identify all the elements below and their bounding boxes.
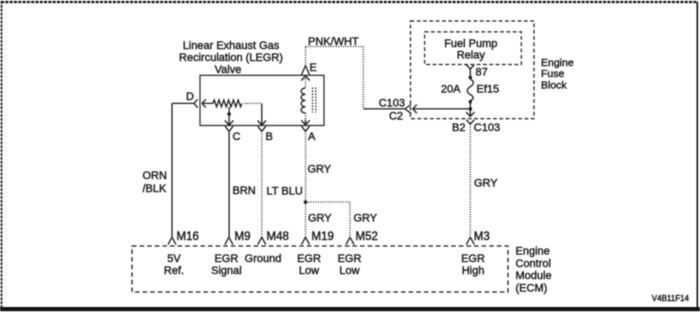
svg-text:(ECM): (ECM)	[516, 282, 548, 294]
wire fuse to junction	[469, 102, 471, 109]
svg-text:Linear Exhaust Gas: Linear Exhaust Gas	[183, 40, 280, 52]
coil up arrow	[301, 76, 309, 81]
frame left dotted border	[1, 1, 3, 307]
connector C103/C2 female half	[405, 105, 411, 114]
resistor right dotted run	[244, 102, 262, 104]
junction dot at C103 tap	[469, 107, 473, 111]
wire PNK/WHT E to C103	[306, 47, 364, 109]
svg-text:B: B	[266, 131, 273, 143]
svg-text:B2: B2	[452, 122, 465, 134]
frame top dotted border	[1, 1, 698, 3]
LEGR valve title	[179, 40, 283, 76]
coil down arrow to pin A	[305, 113, 307, 120]
potentiometer resistor	[213, 100, 242, 107]
svg-text:20A: 20A	[441, 83, 461, 95]
pin M3 connector	[466, 237, 474, 244]
svg-text:Control: Control	[516, 258, 551, 270]
svg-text:Fuel Pump: Fuel Pump	[444, 38, 497, 50]
svg-text:Signal: Signal	[211, 265, 242, 277]
pin M9 connector	[225, 237, 233, 244]
svg-text:Engine: Engine	[516, 246, 550, 258]
pin E connector	[302, 66, 310, 75]
svg-text:Low: Low	[339, 265, 359, 277]
svg-text:A: A	[308, 131, 316, 143]
pin A connector	[302, 126, 310, 131]
svg-text:V4B11F14: V4B11F14	[652, 294, 690, 303]
frame right solid border	[696, 2, 698, 307]
svg-text:GRY: GRY	[308, 213, 332, 225]
pin B connector	[258, 126, 266, 131]
svg-text:EGR: EGR	[338, 253, 362, 265]
pin M48 connector	[258, 237, 266, 244]
svg-text:Ground: Ground	[245, 253, 282, 265]
svg-text:GRY: GRY	[308, 164, 332, 176]
svg-text:C103: C103	[379, 98, 405, 110]
engine fuse block label	[541, 57, 574, 91]
pin M52 connector	[346, 237, 354, 244]
pin C connector	[225, 126, 233, 131]
arrow to B2	[466, 109, 474, 117]
ECM pin function labels	[164, 253, 485, 277]
svg-text:GRY: GRY	[474, 178, 498, 190]
svg-text:M9: M9	[235, 231, 251, 243]
svg-text:Valve: Valve	[215, 64, 242, 76]
solenoid coil	[301, 88, 305, 113]
LEGR valve box	[200, 75, 324, 125]
connector C103/C2 male arrow	[413, 105, 471, 114]
pin 87 connector	[466, 65, 474, 76]
svg-text:Relay: Relay	[457, 50, 486, 62]
svg-text:5V: 5V	[167, 253, 181, 265]
svg-text:M16: M16	[177, 231, 199, 243]
ORN/BLK label	[143, 170, 168, 195]
svg-text:Ef15: Ef15	[477, 83, 500, 95]
svg-text:C103: C103	[474, 122, 500, 134]
wire GRY B2 to M3	[469, 124, 471, 237]
frame bottom solid bar	[0, 307, 700, 311]
fuel pump relay box	[425, 32, 522, 65]
coil core lines	[313, 88, 316, 113]
wiper junction dot	[227, 112, 231, 116]
svg-text:C2: C2	[389, 111, 403, 123]
svg-text:87: 87	[476, 66, 488, 78]
svg-text:BRN: BRN	[233, 185, 256, 197]
svg-text:D: D	[186, 91, 194, 103]
svg-text:Module: Module	[516, 270, 552, 282]
svg-text:GRY: GRY	[354, 213, 378, 225]
svg-text:Low: Low	[299, 265, 319, 277]
connector B2/C103	[466, 120, 474, 124]
svg-text:Recirculation (LEGR): Recirculation (LEGR)	[179, 52, 283, 64]
pin D connector	[172, 99, 213, 107]
engine fuse block box	[411, 21, 535, 119]
fuse Ef15 bottom dot	[469, 100, 472, 103]
pin M19 connector	[302, 237, 310, 244]
wire GRY branch to M52	[306, 202, 351, 237]
ECM side label	[516, 246, 552, 295]
junction dot on GRY wire	[304, 200, 308, 204]
svg-text:Fuse: Fuse	[541, 68, 565, 80]
wire ORN/BLK D to M16	[171, 103, 173, 237]
svg-text:EGR: EGR	[461, 253, 485, 265]
svg-text:E: E	[310, 62, 317, 74]
svg-text:ORN: ORN	[143, 170, 168, 182]
svg-text:EGR: EGR	[297, 253, 321, 265]
wiper arrow to pin C	[225, 116, 234, 126]
svg-text:M48: M48	[267, 231, 289, 243]
wire GRY A to M19	[305, 131, 307, 237]
wire BRN C to M9	[228, 131, 230, 237]
ECM box	[132, 246, 508, 292]
svg-text:Ref.: Ref.	[164, 265, 184, 277]
svg-text:High: High	[462, 265, 485, 277]
svg-text:Engine: Engine	[541, 57, 574, 69]
svg-text:LT BLU: LT BLU	[267, 186, 303, 198]
svg-text:M3: M3	[474, 231, 490, 243]
svg-text:M52: M52	[356, 231, 378, 243]
arrow to pin B	[258, 103, 267, 125]
fuse Ef15 top dot	[469, 76, 472, 79]
svg-text:EGR: EGR	[214, 253, 238, 265]
fuel pump relay label	[444, 38, 497, 62]
svg-text:Block: Block	[541, 79, 567, 91]
svg-text:M19: M19	[312, 231, 334, 243]
wire LT BLU B to M48	[261, 131, 263, 237]
pin M16 connector	[168, 237, 176, 244]
wiper tap wire	[228, 107, 230, 113]
svg-text:PNK/WHT: PNK/WHT	[308, 36, 359, 48]
svg-text:/BLK: /BLK	[143, 183, 168, 195]
fuse Ef15 element	[467, 79, 473, 100]
svg-text:C: C	[233, 131, 241, 143]
